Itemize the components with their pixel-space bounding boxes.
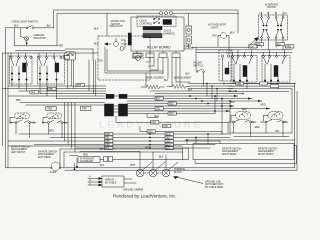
svg-text:RED: RED <box>236 84 241 86</box>
svg-text:RED: RED <box>166 145 171 147</box>
svg-text:TAN: TAN <box>226 52 231 55</box>
oven light switch <box>6 25 54 28</box>
wire oven loop <box>105 47 163 73</box>
svg-text:SENSOR: SENSOR <box>184 49 194 51</box>
svg-text:BLK: BLK <box>94 29 99 31</box>
svg-text:PBP: PBP <box>16 100 21 102</box>
svg-text:SURFACE: SURFACE <box>33 34 44 37</box>
svg-text:RED: RED <box>151 123 156 125</box>
surface indicator lamp <box>14 28 29 46</box>
svg-text:RED: RED <box>261 105 266 107</box>
fuse boxes <box>104 157 108 162</box>
latch dashed box <box>219 50 232 81</box>
clock harness connector comb <box>143 27 162 30</box>
svg-text:FAN: FAN <box>98 60 103 63</box>
wire label boxes lower bus mid <box>165 133 173 150</box>
svg-text:SWITCH: SWITCH <box>111 24 120 26</box>
small connector box left of bottom box <box>183 148 189 160</box>
svg-text:OVEN LIGHT SWITCH: OVEN LIGHT SWITCH <box>12 19 39 23</box>
wire label boxes mid bus <box>155 97 176 115</box>
svg-text:RED: RED <box>105 134 110 136</box>
svg-text:RED: RED <box>105 145 110 147</box>
svg-text:ALTERNATE: ALTERNATE <box>265 3 279 6</box>
svg-text:SWITCH: SWITCH <box>194 65 203 67</box>
svg-text:BLK: BLK <box>164 80 169 82</box>
hot indicator lamp <box>218 33 229 50</box>
svg-text:TAN: TAN <box>275 130 280 133</box>
wire lower-left risers <box>16 103 75 152</box>
svg-text:RED: RED <box>148 132 153 134</box>
svg-text:Rendered by LeadVenture, Inc.: Rendered by LeadVenture, Inc. <box>113 193 177 198</box>
svg-text:PRP: PRP <box>48 109 53 111</box>
bottom mid wires <box>8 146 183 167</box>
svg-text:INFINITE SWITCH: INFINITE SWITCH <box>258 148 278 150</box>
svg-text:G: G <box>89 184 91 186</box>
svg-text:TERMINAL: TERMINAL <box>174 168 186 171</box>
wire risers near lamp <box>74 158 78 170</box>
wire verticals mid-left <box>68 60 96 96</box>
hi limit switch <box>196 53 204 86</box>
broil element <box>141 85 164 89</box>
relay board outline <box>131 17 184 51</box>
svg-text:NOT USED WITH: NOT USED WITH <box>205 184 224 186</box>
svg-text:PRP: PRP <box>82 109 87 111</box>
svg-text:BLK: BLK <box>231 102 236 104</box>
svg-text:INFINITE SWITCH: INFINITE SWITCH <box>11 146 31 148</box>
bake element <box>146 73 190 89</box>
svg-text:RIGHT FRONT: RIGHT FRONT <box>258 154 274 156</box>
svg-text:BLK: BLK <box>94 44 99 46</box>
wire connector links <box>114 96 120 112</box>
svg-text:INDICATOR: INDICATOR <box>33 37 46 40</box>
bottom right box <box>193 144 294 160</box>
svg-text:WHT: WHT <box>145 147 151 149</box>
right mid bus <box>150 84 295 102</box>
svg-text:WIRE IN: WIRE IN <box>105 180 114 182</box>
svg-text:BLOCK: BLOCK <box>174 172 182 174</box>
left bus to middle <box>3 86 107 105</box>
svg-text:PBP: PBP <box>105 141 110 143</box>
svg-text:BLK: BLK <box>188 90 193 92</box>
svg-text:BLK: BLK <box>105 148 110 150</box>
svg-text:TAN: TAN <box>212 35 217 38</box>
upper bus right of sensor <box>192 47 293 52</box>
svg-text:AND ELEMENT: AND ELEMENT <box>38 153 55 156</box>
wire red run mid <box>116 116 228 134</box>
svg-text:TEL: TEL <box>31 92 36 94</box>
svg-text:CONTROL: CONTROL <box>140 22 153 26</box>
svg-text:PBP: PBP <box>48 89 53 91</box>
lower-left switch group label PRP <box>46 107 56 111</box>
svg-text:DOOR LOCK: DOOR LOCK <box>111 21 125 23</box>
relay board edge connector <box>128 33 131 45</box>
svg-text:RED: RED <box>154 116 159 118</box>
oven sensor <box>186 13 192 48</box>
wire label boxes right mid <box>236 82 279 88</box>
svg-text:BLK: BLK <box>186 74 191 76</box>
svg-text:ORG: ORG <box>169 114 174 116</box>
svg-text:PBP: PBP <box>77 85 82 87</box>
wire risers middle <box>147 96 230 134</box>
svg-text:HOT INDICATOR: HOT INDICATOR <box>208 24 226 27</box>
wire alt switch arrow <box>250 38 258 46</box>
oven selector switch <box>64 52 76 60</box>
svg-text:ORG: ORG <box>166 141 171 143</box>
middle connector lower pair <box>105 104 128 116</box>
clock harness pins <box>143 30 162 38</box>
oven lamp <box>132 54 144 61</box>
svg-text:D-DISMARIT: D-DISMARIT <box>80 160 94 163</box>
svg-text:RED: RED <box>242 109 247 111</box>
svg-text:BAKE ELEMENT: BAKE ELEMENT <box>174 76 192 79</box>
svg-text:TEL: TEL <box>105 138 110 140</box>
svg-text:BLK: BLK <box>230 33 235 35</box>
svg-text:AND ELEMENT: AND ELEMENT <box>11 148 28 151</box>
junction dots on middle bus <box>189 95 231 112</box>
wire top frame <box>54 10 239 33</box>
terminal block circles <box>136 152 178 177</box>
svg-text:CLOCK: CLOCK <box>164 31 172 33</box>
wire label boxes left bus <box>30 84 85 94</box>
wire label boxes right top <box>249 45 294 48</box>
wire arrowheads middle bus <box>226 95 270 112</box>
svg-text:AND ELEMENT: AND ELEMENT <box>258 150 275 153</box>
long bottom loop wires <box>61 168 297 170</box>
svg-text:BLK: BLK <box>277 44 282 46</box>
svg-text:INFINITE SWITCH: INFINITE SWITCH <box>38 151 58 153</box>
svg-text:BLK: BLK <box>14 26 19 28</box>
top connector circles <box>131 12 238 15</box>
svg-text:BLK: BLK <box>100 165 105 167</box>
bottom right box shadow <box>195 146 297 164</box>
svg-text:WHT: WHT <box>130 165 136 167</box>
svg-text:BX CABLE WIRE: BX CABLE WIRE <box>205 186 223 189</box>
infinite switch left front (upper B) <box>38 53 65 99</box>
svg-text:RED: RED <box>255 127 260 129</box>
surface element right rear (G) <box>230 112 256 137</box>
infinite switch right front (F) <box>262 50 290 89</box>
door lock switch box <box>137 16 176 27</box>
svg-text:LEFT REAR: LEFT REAR <box>38 156 51 159</box>
svg-text:WHT: WHT <box>100 149 106 151</box>
svg-text:BX CABLE: BX CABLE <box>105 182 117 185</box>
infinite switch left rear (upper A) <box>10 53 33 91</box>
junction dots right mid bus <box>206 83 244 95</box>
door lock connector <box>163 20 172 25</box>
svg-text:LIGHT: LIGHT <box>211 27 218 29</box>
svg-text:RED: RED <box>166 134 171 136</box>
svg-text:BLK: BLK <box>159 157 164 159</box>
svg-text:GROUND LINK: GROUND LINK <box>205 181 221 183</box>
svg-text:OVEN LIGHT: OVEN LIGHT <box>109 26 124 28</box>
svg-text:HI LIMIT: HI LIMIT <box>194 63 203 65</box>
svg-text:INFINITE SWITCH: INFINITE SWITCH <box>222 148 242 150</box>
svg-text:RED: RED <box>256 44 261 46</box>
svg-text:AND ELEMENT: AND ELEMENT <box>222 150 239 153</box>
svg-text:YEL: YEL <box>156 109 161 111</box>
transformer box bottom left <box>78 157 100 163</box>
alternate switch contacts <box>261 12 284 50</box>
svg-text:BROIL ELEMENT: BROIL ELEMENT <box>146 77 165 79</box>
lock control contacts <box>153 17 159 24</box>
surface element left (C) <box>10 113 37 124</box>
surface element right front (H) <box>263 112 289 137</box>
middle bus to right <box>127 96 270 114</box>
svg-text:BLK: BLK <box>156 99 161 101</box>
infinite switch right rear (E) <box>231 50 257 89</box>
right lower wires <box>230 133 295 140</box>
relay row under board <box>133 51 190 84</box>
right bus under E F <box>228 83 297 170</box>
junction dots lower bus <box>149 133 209 149</box>
lower bus <box>8 134 230 152</box>
svg-text:TAN: TAN <box>163 125 168 128</box>
svg-text:YEL: YEL <box>166 138 171 140</box>
svg-text:BLK: BLK <box>47 26 52 28</box>
wire relay top double <box>106 13 108 36</box>
wire in bx cable box <box>88 176 136 187</box>
middle connector upper pair <box>106 94 127 98</box>
fan motor <box>105 38 128 51</box>
svg-text:GROUND JUMPER: GROUND JUMPER <box>123 189 144 191</box>
svg-text:BLK: BLK <box>249 46 254 48</box>
svg-text:RIGHT REAR: RIGHT REAR <box>222 153 236 156</box>
left edge verticals <box>3 28 9 168</box>
oven cavity dashed box <box>98 36 150 80</box>
svg-text:LAMP: LAMP <box>50 171 57 174</box>
wire left upper h <box>3 46 99 53</box>
svg-text:RELAY BOARD: RELAY BOARD <box>147 46 171 50</box>
svg-text:RED: RED <box>58 46 63 48</box>
wire bake label box <box>65 49 93 60</box>
surface element right (D) <box>42 113 68 124</box>
svg-text:RED: RED <box>169 104 174 106</box>
svg-text:HARNESS: HARNESS <box>164 32 176 35</box>
alt switch label boxes <box>255 43 284 46</box>
ground link arrow <box>174 177 203 184</box>
wires into bottom right box <box>185 134 230 144</box>
svg-text:BLK: BLK <box>166 148 171 150</box>
oven lamp bottom <box>6 162 61 171</box>
wire top frame inner <box>57 13 131 46</box>
svg-text:RED: RED <box>83 154 88 156</box>
wire label stack lower bus <box>105 133 113 150</box>
svg-text:LEFT FRONT: LEFT FRONT <box>11 152 26 154</box>
svg-text:SWITCH: SWITCH <box>267 7 276 9</box>
alternate switch dashed box <box>258 15 287 40</box>
svg-text:RED: RED <box>286 46 291 48</box>
svg-text:OVEN: OVEN <box>184 46 191 48</box>
svg-text:RED: RED <box>49 131 54 133</box>
